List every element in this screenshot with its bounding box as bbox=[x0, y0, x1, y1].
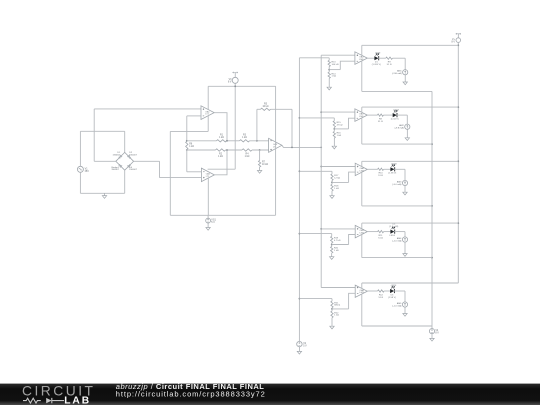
op-amp OA1 bbox=[201, 106, 214, 120]
junction block3 divider tap bbox=[331, 182, 333, 184]
label R21 bbox=[334, 302, 340, 306]
wire V3 supply vertical bbox=[234, 83, 236, 169]
wire LED to corner bbox=[394, 290, 405, 292]
wire OA1 output bbox=[214, 113, 227, 141]
junction signal bus b2 bbox=[320, 111, 322, 113]
label D2 bbox=[129, 152, 137, 156]
label LED2 above bbox=[393, 109, 399, 111]
resistor R12 bbox=[378, 290, 385, 292]
wire block2 divider top stub bbox=[333, 118, 335, 121]
ammeter AM5 bbox=[402, 302, 407, 307]
wire block2 divider feed from reference bus bbox=[299, 117, 334, 119]
wire V+ bus bbox=[457, 42, 459, 283]
ground GND4 bbox=[297, 351, 301, 354]
junction output to signal bus bbox=[320, 147, 322, 149]
resistor R20 (divider bottom) bbox=[331, 247, 333, 254]
supply V+ top right bbox=[456, 33, 461, 42]
wire OA5 output to resistor bbox=[367, 114, 377, 116]
svg-text:8 V: 8 V bbox=[451, 41, 455, 43]
junction block4 divider tap bbox=[331, 244, 333, 246]
resistor R11 bbox=[378, 230, 384, 232]
op-amp OA5 bbox=[355, 109, 367, 122]
resistor R3 bbox=[240, 140, 250, 142]
svg-text:51 Ω: 51 Ω bbox=[387, 64, 392, 66]
wire OA4 output to LED bbox=[367, 57, 374, 59]
junction OA1 output to rail1 bbox=[226, 140, 228, 142]
wire node A to OA1 noninverting input bbox=[94, 108, 201, 110]
wire block5 tap to riser bbox=[332, 308, 349, 310]
wire OA7 V+ stub bbox=[361, 223, 363, 229]
junction V3 on top rail bbox=[234, 85, 236, 87]
svg-text:1 kΩ: 1 kΩ bbox=[337, 135, 342, 137]
wire OA2 V+ horizontal bbox=[208, 168, 236, 170]
label R22 bbox=[334, 312, 339, 316]
wire block3 divider feed from reference bus bbox=[299, 170, 332, 172]
wire rail1 segment a bbox=[187, 140, 217, 142]
wire block2 divider middle bbox=[333, 127, 335, 131]
bridge diode D2 (top-right edge) bbox=[128, 155, 131, 158]
svg-text:100 kΩ: 100 kΩ bbox=[332, 64, 339, 66]
svg-text:1N4007: 1N4007 bbox=[111, 169, 119, 171]
junction ref bus b4 bbox=[299, 233, 301, 235]
wire feedback riser bbox=[256, 109, 258, 141]
svg-text:1 kΩ: 1 kΩ bbox=[334, 250, 339, 252]
wire resistor to LED bbox=[384, 290, 390, 292]
wire block4 V- rail bbox=[362, 257, 432, 259]
voltage source V1 (AC input) bbox=[77, 166, 83, 172]
svg-text:1 kΩ: 1 kΩ bbox=[334, 315, 339, 317]
wire block4 noninverting input from signal bus bbox=[321, 228, 355, 230]
wire OA5 V+ stub bbox=[361, 107, 363, 112]
svg-text:1 kΩ: 1 kΩ bbox=[219, 137, 224, 139]
supply V3 bbox=[232, 72, 238, 84]
wire block5 divider to ground bbox=[331, 318, 333, 327]
svg-text:5 V: 5 V bbox=[211, 222, 215, 224]
op-amp OA4 bbox=[355, 52, 367, 65]
wire block4 divider middle bbox=[331, 243, 333, 247]
wire OA7 V- stub bbox=[361, 234, 363, 257]
svg-text:±5V: ±5V bbox=[85, 170, 90, 173]
resistor R17 (divider top) bbox=[331, 174, 333, 181]
wire feedback down to output bbox=[291, 109, 293, 147]
op-amp OA3 (difference amp) bbox=[269, 138, 282, 152]
svg-text:8 V: 8 V bbox=[228, 81, 232, 83]
svg-text:(1.34 V): (1.34 V) bbox=[391, 119, 399, 121]
wire block5 V+ rail bbox=[362, 282, 459, 284]
label R10 bbox=[378, 173, 383, 177]
label R5 bbox=[262, 103, 268, 108]
wire OA4 V- stub bbox=[361, 61, 363, 92]
svg-text:LED3: LED3 bbox=[391, 164, 397, 166]
junction feedback tap bbox=[256, 140, 258, 142]
svg-text:1N4007: 1N4007 bbox=[129, 169, 137, 171]
wire block1 riser to inverting input bbox=[340, 61, 355, 69]
label V1 bbox=[85, 168, 90, 174]
svg-text:8 V: 8 V bbox=[435, 332, 439, 334]
wire block3 divider to ground bbox=[331, 191, 333, 196]
junction R7 tap bbox=[259, 149, 261, 151]
resistor R15 (divider top) bbox=[333, 121, 335, 128]
wire block1 down to ammeter bbox=[404, 58, 406, 69]
wire block5 V- rail bbox=[362, 325, 432, 327]
svg-text:LED2: LED2 bbox=[393, 109, 399, 111]
wire bottom loop bbox=[80, 192, 124, 194]
resistor R22 (divider bottom) bbox=[331, 311, 333, 318]
junction V+ bus b1 bbox=[457, 44, 459, 46]
wire block4 tap to riser bbox=[332, 244, 349, 246]
wire OA3 output bbox=[282, 145, 321, 147]
wire block1 V- rail bbox=[362, 90, 432, 92]
ammeter AM1 bbox=[403, 70, 408, 75]
voltage source VG1 bbox=[206, 218, 211, 223]
junction OA2 output to rail2 bbox=[226, 149, 228, 151]
svg-text:(-130 mA): (-130 mA) bbox=[392, 72, 402, 75]
LED LED4 bbox=[390, 227, 395, 234]
resistor R16 (divider bottom) bbox=[333, 131, 335, 138]
wire ammeter to ground bbox=[404, 75, 406, 82]
wire block1 divider to ground bbox=[328, 78, 330, 87]
label R6 bbox=[189, 143, 194, 148]
svg-text:(1.58 V): (1.58 V) bbox=[388, 173, 396, 175]
wire block5 divider feed from reference bus bbox=[299, 298, 332, 300]
svg-text:1 kΩ: 1 kΩ bbox=[245, 156, 250, 158]
resistor R8 bbox=[377, 114, 383, 116]
wire V4 to ground bbox=[431, 334, 433, 339]
svg-text:http://circuitlab.com/crp38883: http://circuitlab.com/crp3888333y72 bbox=[116, 389, 266, 398]
wire power right side bbox=[275, 86, 277, 215]
wire resistor to LED bbox=[384, 231, 391, 233]
label V3 bbox=[228, 79, 232, 84]
bridge diode D1 (top-left edge) bbox=[119, 155, 122, 158]
resistor R1 bbox=[217, 140, 227, 142]
op-amp OA8 bbox=[355, 285, 367, 297]
resistor R19 (divider top) bbox=[331, 236, 333, 243]
wire block1 divider top stub bbox=[328, 58, 330, 61]
svg-text:(-1.0 mA): (-1.0 mA) bbox=[392, 304, 401, 307]
label LED5 above bbox=[391, 285, 397, 287]
label R1 bbox=[219, 135, 224, 140]
wire bridge left vertex bbox=[94, 160, 116, 162]
svg-text:LED4: LED4 bbox=[390, 235, 396, 237]
label R17 bbox=[334, 175, 340, 179]
bridge rectifier BR1 diamond bbox=[116, 152, 134, 170]
wire block2 divider to ground bbox=[333, 138, 335, 146]
label R14 bbox=[332, 73, 337, 77]
wire LED to corner bbox=[397, 114, 408, 116]
svg-text:10 kΩ: 10 kΩ bbox=[262, 164, 268, 166]
label LED3 below bbox=[388, 173, 396, 175]
svg-text:5 V: 5 V bbox=[303, 345, 307, 347]
wire block1 divider feed from reference bus bbox=[299, 57, 329, 59]
label V2 bbox=[303, 343, 307, 348]
junction block5 divider tap bbox=[331, 308, 333, 310]
ground block4 divider bbox=[330, 257, 334, 260]
wire resistor to corner bbox=[393, 57, 406, 59]
wire block3 V+ rail bbox=[362, 160, 459, 162]
wire block1 noninverting input from signal bus bbox=[321, 54, 355, 56]
ground block3 ammeter bbox=[403, 192, 407, 195]
LED LED3 bbox=[390, 165, 395, 172]
label AM2 bbox=[395, 124, 405, 129]
wire resistor to LED bbox=[384, 168, 391, 170]
label AM4 bbox=[392, 237, 402, 242]
wire ammeter to ground bbox=[404, 242, 406, 254]
wire resistor to LED bbox=[383, 114, 393, 116]
wire rail1 segment b bbox=[227, 140, 240, 142]
wire block5 noninverting input from signal bus bbox=[321, 287, 355, 289]
wire OA1 V- horizontal bbox=[170, 130, 208, 132]
wire LED to resistor bbox=[378, 57, 385, 59]
wire block2 V+ rail bbox=[362, 106, 459, 108]
ground GND1 stub bbox=[104, 193, 106, 195]
ammeter AM2 bbox=[405, 124, 410, 129]
ground GND3 bbox=[206, 228, 210, 231]
ground block4 ammeter bbox=[403, 254, 407, 257]
wire OA1 V- stub bbox=[207, 116, 209, 132]
wire block5 riser to inverting input bbox=[349, 293, 356, 309]
CircuitLab logo diode bbox=[46, 398, 64, 403]
wire node B to OA2 noninverting input bbox=[160, 177, 202, 179]
ground GND2 bbox=[257, 171, 261, 174]
resistor R14 (divider bottom) bbox=[328, 72, 330, 78]
label R16 bbox=[337, 133, 342, 137]
voltage source V4 (negative rail) bbox=[429, 329, 434, 334]
label R12 bbox=[379, 294, 384, 298]
junction signal bus b4 bbox=[320, 228, 322, 230]
footer bar bbox=[0, 384, 540, 405]
wire feedback top a bbox=[257, 108, 261, 110]
LED LED5 bbox=[390, 286, 395, 293]
svg-text:51 Ω: 51 Ω bbox=[378, 237, 383, 239]
label R11 bbox=[378, 235, 383, 239]
wire block1 divider middle bbox=[328, 67, 330, 73]
wire ammeter to ground bbox=[404, 307, 406, 313]
ground block3 divider bbox=[330, 196, 334, 199]
junction signal bus b3 bbox=[320, 166, 322, 168]
label AM1 bbox=[392, 70, 403, 75]
wire block5 divider top stub bbox=[331, 299, 333, 302]
wire riser to OA1 input bbox=[93, 109, 95, 161]
wire block2 V- rail bbox=[362, 143, 432, 145]
op-amp OA2 bbox=[201, 168, 214, 182]
svg-text:1 kΩ: 1 kΩ bbox=[242, 137, 247, 139]
wire OA4 V+ stub bbox=[361, 45, 363, 55]
label R15 bbox=[337, 122, 343, 126]
wire OA8 V- stub bbox=[361, 294, 363, 326]
label R3 bbox=[242, 135, 247, 140]
wire block3 V- rail bbox=[362, 205, 432, 207]
ground block1 ammeter bbox=[403, 82, 407, 85]
wire V- chain bbox=[431, 91, 433, 328]
junction node A bbox=[186, 140, 188, 142]
label R2 bbox=[218, 153, 223, 158]
op-amp OA7 bbox=[355, 225, 367, 237]
label LED5 below bbox=[388, 294, 396, 298]
junction V+ bus b3 bbox=[457, 160, 459, 162]
wire OA2 V- stub bbox=[207, 178, 209, 215]
wire OA1 V- riser bbox=[169, 131, 171, 215]
label LED4 above bbox=[389, 223, 398, 227]
junction V- chain b4 bbox=[431, 257, 433, 259]
wire OA2 output bbox=[214, 150, 227, 175]
wire block4 V+ rail bbox=[362, 222, 459, 224]
wire block4 riser to inverting input bbox=[349, 235, 356, 245]
wire block5 down to ammeter bbox=[404, 291, 406, 302]
wire block3 divider middle bbox=[331, 181, 333, 185]
label R13 bbox=[332, 62, 339, 66]
svg-text:12 kΩ: 12 kΩ bbox=[334, 178, 340, 180]
label R8 bbox=[378, 119, 383, 123]
wire feedback top b bbox=[271, 108, 293, 110]
wire block4 down to ammeter bbox=[404, 232, 406, 237]
wire reference bus bbox=[298, 58, 300, 342]
ground GND1 bbox=[102, 196, 106, 199]
wire rail2 segment a bbox=[187, 149, 216, 151]
junction V+ bus b2 bbox=[457, 106, 459, 108]
label D1 bbox=[113, 152, 121, 156]
wire to bridge top vertex bbox=[124, 131, 126, 152]
wire block3 riser to inverting input bbox=[349, 172, 356, 182]
LED LED2 bbox=[393, 111, 398, 118]
wire OA2 inverting input bbox=[187, 171, 202, 173]
svg-text:LED5: LED5 bbox=[391, 285, 397, 287]
wire signal bus (OA3 output to comparators) bbox=[320, 55, 322, 287]
wire block2 riser to inverting input bbox=[349, 118, 355, 129]
wire block1 tap to riser bbox=[329, 69, 340, 71]
wire ammeter to ground bbox=[404, 186, 406, 193]
wire LED to corner bbox=[394, 231, 405, 233]
wire rail2 segment b bbox=[226, 149, 243, 151]
wire V2 to ground bbox=[298, 347, 300, 352]
wire ammeter to ground bbox=[406, 129, 408, 138]
ammeter AM4 bbox=[402, 237, 407, 242]
junction ref bus b2 bbox=[299, 117, 301, 119]
bridge diode D3 (bottom-left edge) bbox=[119, 164, 122, 167]
wire block3 noninverting input from signal bus bbox=[321, 166, 355, 168]
resistor R18 (divider bottom) bbox=[331, 184, 333, 191]
junction ref bus b5 bbox=[299, 298, 301, 300]
wire OA8 V+ stub bbox=[361, 283, 363, 289]
label LED2 below bbox=[391, 119, 399, 121]
wire block4 divider top stub bbox=[331, 234, 333, 237]
wire OA6 output to resistor bbox=[367, 168, 377, 170]
ground GND5 bbox=[430, 338, 434, 341]
wire node A vertical bbox=[186, 116, 188, 141]
wire OA8 output to resistor bbox=[367, 290, 377, 292]
wire VG1 to ground bbox=[207, 223, 209, 228]
wire block1 V+ rail bbox=[362, 44, 459, 46]
resistor R7 (to ground) bbox=[258, 161, 260, 168]
svg-text:(1.6 mW): (1.6 mW) bbox=[389, 226, 398, 228]
wire OA7 output to resistor bbox=[367, 231, 377, 233]
label AM3 bbox=[392, 180, 402, 185]
wire V1 bottom lead bbox=[79, 172, 81, 193]
junction ref bus b3 bbox=[299, 170, 301, 172]
label LED3 above bbox=[391, 164, 397, 166]
wire bridge right vertex bbox=[134, 160, 160, 162]
bridge diode D4 (bottom-right edge) bbox=[128, 164, 131, 167]
label bridge bbox=[111, 166, 119, 171]
LED LED1 bbox=[374, 54, 379, 61]
wire block3 tap to riser bbox=[332, 181, 349, 183]
junction block2 divider tap bbox=[333, 128, 335, 130]
wire rail2 segment c bbox=[252, 149, 269, 151]
label LED1 above bbox=[375, 52, 381, 54]
wire block4 divider feed from reference bus bbox=[299, 233, 331, 235]
svg-text:51 Ω: 51 Ω bbox=[378, 121, 383, 123]
wire drop bbox=[159, 161, 161, 177]
wire R7 stub bbox=[259, 150, 261, 161]
resistor R5 (feedback) bbox=[261, 108, 271, 110]
ground block5 divider bbox=[330, 326, 334, 329]
wire block2 noninverting input from signal bus bbox=[321, 111, 355, 113]
resistor R9 bbox=[386, 57, 393, 59]
svg-text:51 Ω: 51 Ω bbox=[378, 175, 383, 177]
label R7 bbox=[262, 162, 268, 167]
label AM5 bbox=[392, 302, 402, 307]
junction V+ bus b4 bbox=[457, 222, 459, 224]
label VG1 bbox=[211, 219, 216, 224]
svg-text:1N4007: 1N4007 bbox=[129, 154, 137, 156]
junction block1 divider tap bbox=[328, 69, 330, 71]
svg-text:1 kΩ: 1 kΩ bbox=[189, 146, 194, 148]
resistor R21 (divider top) bbox=[331, 301, 333, 308]
svg-text:1 kΩ: 1 kΩ bbox=[218, 156, 223, 158]
resistor R13 (divider top) bbox=[328, 60, 330, 66]
ammeter AM3 bbox=[402, 180, 407, 185]
svg-text:LAB: LAB bbox=[64, 396, 91, 405]
wire VG1 stub bbox=[207, 215, 209, 218]
wire block2 tap to riser bbox=[334, 128, 348, 130]
resistor R6 (gain) bbox=[186, 141, 188, 149]
label R18 bbox=[334, 186, 339, 190]
svg-text:680 Ω: 680 Ω bbox=[334, 305, 340, 307]
svg-text:(-5.0 mA): (-5.0 mA) bbox=[392, 183, 401, 186]
ground block1 divider bbox=[327, 87, 331, 90]
resistor R4 bbox=[242, 149, 252, 151]
wire power bottom rail bbox=[170, 214, 275, 216]
wire LED to corner bbox=[394, 168, 405, 170]
resistor R2 bbox=[216, 149, 226, 151]
wire bridge bottom vertex down bbox=[124, 170, 126, 193]
wire OA1 V+ stub bbox=[207, 86, 209, 109]
svg-text:(1.205 V): (1.205 V) bbox=[372, 64, 381, 66]
svg-text:(-2.0 mA): (-2.0 mA) bbox=[392, 239, 401, 242]
wire R7 to ground bbox=[259, 167, 261, 171]
wire rail1 segment c bbox=[250, 140, 269, 142]
wire OA6 V+ stub bbox=[361, 161, 363, 166]
junction feedback on output bbox=[291, 147, 293, 149]
svg-text:(1.58 V): (1.58 V) bbox=[388, 297, 396, 299]
op-amp OA6 bbox=[355, 163, 367, 175]
voltage source V2 (reference) bbox=[297, 341, 302, 346]
svg-text:(-9.8 mA): (-9.8 mA) bbox=[395, 127, 404, 130]
ground block5 ammeter bbox=[403, 314, 407, 317]
label R19 bbox=[334, 238, 341, 242]
wire node B vertical bbox=[186, 150, 188, 172]
wire block3 divider top stub bbox=[331, 171, 333, 174]
label LED1 below bbox=[372, 62, 381, 66]
junction node B bbox=[186, 149, 188, 151]
junction V- chain b3 bbox=[431, 205, 433, 207]
wire OA6 V- stub bbox=[361, 172, 363, 206]
svg-text:1 kΩ: 1 kΩ bbox=[334, 188, 339, 190]
svg-text:4.7 kΩ: 4.7 kΩ bbox=[334, 240, 341, 242]
wire top loop bbox=[80, 130, 124, 132]
wire OA5 V- stub bbox=[361, 118, 363, 144]
wire V1 top lead bbox=[79, 131, 81, 166]
wire block5 divider middle bbox=[331, 308, 333, 311]
